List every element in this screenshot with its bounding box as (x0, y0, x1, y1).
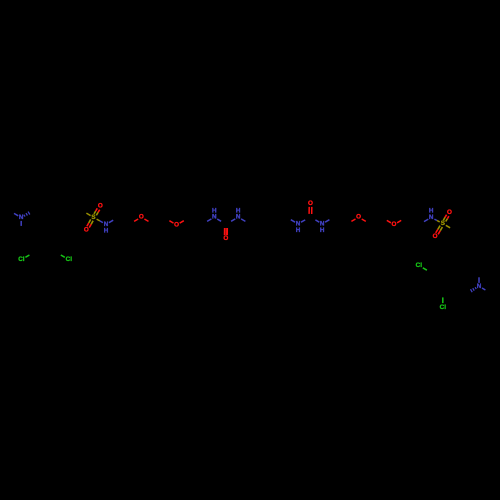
svg-text:O: O (447, 209, 452, 216)
svg-text:O: O (433, 233, 438, 240)
svg-text:O: O (174, 221, 179, 228)
svg-text:O: O (356, 214, 361, 221)
bond N7-S2 (434, 219, 437, 220)
svg-text:H: H (236, 207, 241, 214)
svg-text:S: S (441, 220, 445, 227)
bond N1-CH2 (down) (20, 221, 22, 226)
svg-text:O: O (308, 200, 313, 207)
urea2 C=O double bond (311, 207, 313, 214)
bond S1-N2 (97, 219, 100, 221)
double bond S2=O (upper right) (446, 219, 448, 222)
svg-text:O: O (84, 227, 89, 234)
bond N8-CH3 (down-right) (482, 288, 485, 290)
double bond S2=O (lower left) (438, 226, 440, 230)
bond N6-CH2 (up-right) (325, 220, 329, 223)
svg-text:H: H (296, 227, 301, 234)
bond N4-CH2 (down-right) (241, 219, 245, 222)
svg-text:O: O (98, 203, 103, 210)
bond N4-C(=O) (231, 219, 235, 221)
bond O2-CH2 left (169, 221, 173, 223)
hashed wedge bond N8-C (down-left) (475, 287, 476, 289)
bond N1-CH3 (methyl, up-left) (14, 213, 18, 215)
svg-text:H: H (104, 227, 109, 234)
double bond S1=O (upper right) (96, 212, 98, 215)
svg-text:Cl: Cl (440, 304, 447, 311)
svg-text:H: H (429, 208, 434, 215)
urea1 C=O double bond (224, 228, 226, 235)
bond O4-CH2 right (397, 220, 401, 222)
bond O1-CH2 left (134, 219, 138, 221)
bond O3-CH2 right (362, 219, 366, 221)
bond N2-CH2 (up-right) (109, 220, 113, 223)
bond N8-CH3 (up) (478, 277, 480, 283)
bond Cl3-ring (423, 268, 427, 270)
svg-text:N: N (429, 214, 434, 221)
svg-text:N: N (19, 214, 24, 221)
bond N3-CH2 (down-left) (207, 219, 211, 222)
bond N6-C(=O) (315, 220, 319, 222)
svg-text:N: N (212, 214, 217, 221)
hashed wedge bond N1-C (up-right) (24, 215, 25, 217)
svg-text:Cl: Cl (66, 256, 73, 263)
bond O2-CH2 right (180, 221, 184, 223)
svg-text:O: O (223, 235, 228, 242)
bond O4-CH2 left (387, 220, 391, 222)
svg-text:S: S (91, 214, 95, 221)
double bond S1=O (lower left) (89, 219, 91, 223)
svg-text:Cl: Cl (18, 256, 25, 263)
bond Cl1-ring (25, 255, 29, 257)
svg-text:H: H (320, 227, 325, 234)
bond O3-CH2 left (351, 219, 355, 221)
svg-text:N: N (236, 214, 241, 221)
svg-text:N: N (477, 283, 482, 290)
bond N5-C(=O) (301, 220, 305, 222)
bond O1-CH2 right (144, 219, 148, 221)
bond N5-CH2 (up-left) (291, 220, 295, 223)
bond N7-CH2 (down-left) (424, 219, 428, 222)
bond N3-C(=O) (217, 219, 221, 221)
svg-text:Cl: Cl (416, 262, 423, 269)
bond S1-CH2 (up-left) (86, 213, 90, 216)
svg-text:O: O (139, 214, 144, 221)
svg-text:O: O (392, 221, 397, 228)
bond Cl2-ring (61, 255, 65, 257)
bond S2-CH2 (down-right) (446, 225, 450, 228)
svg-text:H: H (212, 207, 217, 214)
bond Cl4-ring (442, 297, 444, 303)
